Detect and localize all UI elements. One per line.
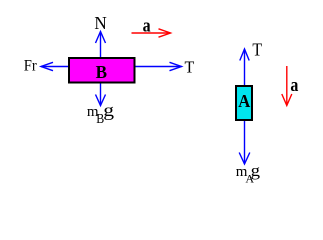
svg-text:A: A — [238, 91, 250, 111]
svg-text:a: a — [290, 75, 298, 96]
svg-text:N: N — [94, 13, 106, 33]
svg-text:T: T — [252, 39, 262, 59]
svg-text:Fr: Fr — [24, 58, 38, 75]
svg-text:B: B — [96, 62, 107, 82]
svg-text:a: a — [143, 16, 151, 37]
svg-text:g: g — [251, 161, 261, 180]
svg-text:T: T — [185, 58, 195, 77]
svg-text:g: g — [103, 100, 114, 120]
